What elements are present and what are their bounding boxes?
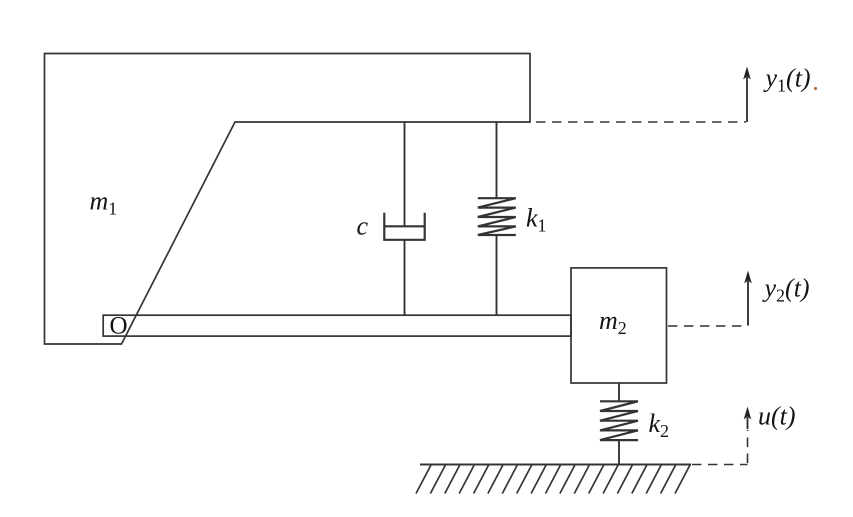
svg-text:m2: m2: [599, 306, 627, 338]
ground line: [420, 464, 691, 466]
dashed line u horizontal: [692, 464, 748, 466]
svg-text:c: c: [357, 212, 369, 241]
arrow y1 shaft: [746, 77, 748, 122]
damper upper rod: [404, 122, 406, 226]
mass m2 box: [571, 268, 667, 383]
svg-text:y2(t): y2(t): [762, 274, 810, 306]
arrow y2 shaft: [747, 281, 749, 326]
svg-text:m1: m1: [90, 187, 118, 219]
spring k2 upper rod: [618, 383, 620, 401]
damper lower rod: [404, 240, 406, 315]
spring k2 lower rod: [618, 440, 620, 464]
spring k1 upper rod: [496, 122, 498, 198]
stray dot after y1(t): [814, 87, 817, 90]
spring k1 coil: [478, 198, 516, 235]
svg-text:y1(t): y1(t): [763, 64, 811, 96]
arrowhead y2: [744, 271, 752, 284]
dashed line u vertical: [747, 430, 749, 463]
svg-text:k2: k2: [649, 409, 670, 441]
lever bar: [103, 315, 571, 336]
dashed line y1: [536, 121, 746, 123]
svg-text:O: O: [110, 313, 128, 340]
mass m1 body outline: [45, 54, 531, 345]
svg-text:k1: k1: [526, 204, 547, 236]
spring k2 coil: [600, 401, 638, 440]
arrowhead y1: [743, 67, 751, 80]
damper cup: [384, 213, 424, 240]
ground hatching: [416, 465, 690, 494]
dashed line y2: [668, 325, 748, 327]
arrow u shaft: [747, 417, 749, 429]
arrowhead u: [744, 407, 752, 420]
spring k1 lower rod: [496, 235, 498, 315]
damper piston plate: [384, 225, 424, 227]
svg-text:u(t): u(t): [758, 402, 796, 431]
